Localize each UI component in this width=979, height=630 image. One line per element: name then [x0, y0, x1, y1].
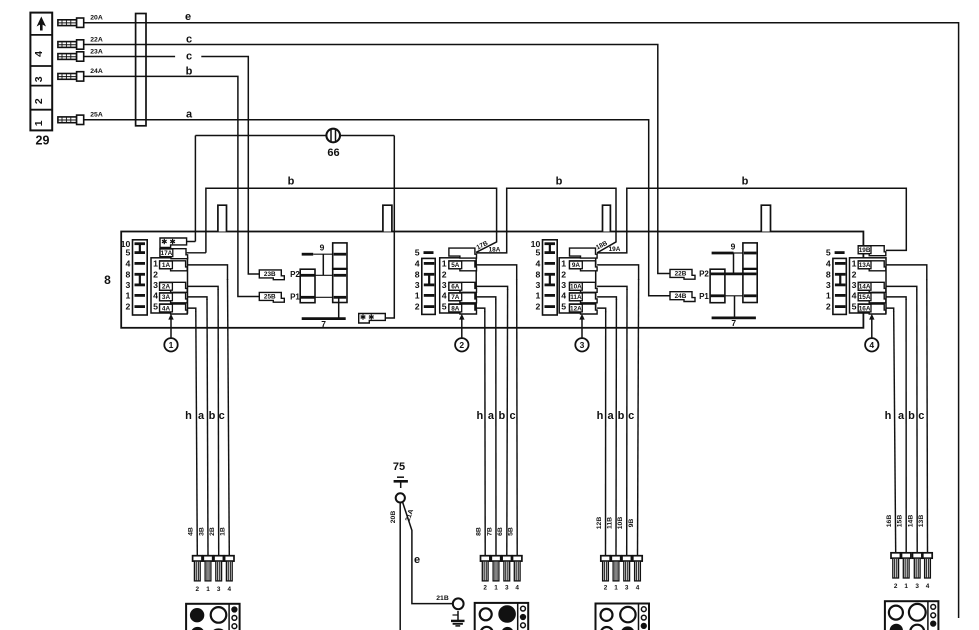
svg-text:5: 5 [125, 248, 130, 258]
svg-text:4: 4 [515, 585, 519, 592]
svg-text:2: 2 [826, 302, 831, 312]
svg-text:1: 1 [153, 259, 158, 269]
wire 4B [196, 311, 198, 556]
svg-text:1: 1 [535, 291, 540, 301]
svg-text:15A: 15A [859, 294, 871, 301]
svg-text:2: 2 [196, 586, 200, 593]
svg-text:a: a [488, 410, 495, 422]
svg-text:3: 3 [826, 280, 831, 290]
connector 1 pin column [121, 239, 148, 315]
connector face 3 [596, 604, 650, 630]
svg-text:7: 7 [731, 318, 736, 328]
box top tab 3 [603, 205, 611, 231]
svg-text:12A: 12A [570, 305, 582, 312]
relay 2 coil tabs [670, 269, 695, 279]
tab 4A [160, 304, 188, 314]
svg-text:2B: 2B [209, 527, 216, 536]
svg-text:4: 4 [826, 259, 831, 269]
svg-text:b: b [209, 410, 216, 422]
wire 7B [495, 299, 497, 556]
svg-text:2: 2 [153, 270, 158, 280]
svg-text:5: 5 [535, 248, 540, 258]
arrow connector 2 [459, 314, 464, 338]
circled 4 [865, 338, 878, 351]
svg-text:5: 5 [852, 302, 857, 312]
box top tab 1 [218, 205, 227, 231]
svg-text:e: e [185, 11, 191, 23]
fuse terminal 20A [58, 15, 103, 28]
svg-text:b: b [499, 410, 506, 422]
svg-text:7B: 7B [486, 527, 493, 536]
svg-text:2: 2 [125, 302, 130, 312]
box top tab 2 [383, 205, 392, 231]
wire 2B [217, 289, 220, 556]
connector 29 block [30, 13, 52, 131]
wire b (24A) [84, 76, 260, 296]
svg-text:4: 4 [561, 291, 566, 301]
svg-text:20B: 20B [390, 511, 397, 524]
star link 2 [359, 314, 386, 324]
svg-text:1: 1 [561, 259, 566, 269]
svg-text:5B: 5B [508, 527, 515, 536]
svg-text:23A: 23A [90, 48, 103, 55]
svg-text:9: 9 [731, 242, 736, 252]
svg-text:1: 1 [442, 259, 447, 269]
svg-text:4: 4 [153, 291, 158, 301]
connector face 4 [885, 601, 939, 630]
svg-text:4: 4 [415, 259, 420, 269]
svg-text:b: b [618, 410, 625, 422]
tab 7A [449, 293, 477, 303]
relay 1 coil tabs [259, 270, 284, 280]
arrow connector 4 [869, 314, 874, 338]
svg-text:5A: 5A [451, 262, 460, 269]
svg-text:3: 3 [415, 280, 420, 290]
wire 13B [926, 279, 929, 553]
main box 8 outline [121, 232, 863, 328]
tab 12A [570, 304, 598, 314]
connector face 2 [475, 603, 529, 630]
svg-text:11A: 11A [570, 294, 582, 301]
svg-text:3: 3 [625, 585, 629, 592]
wire 12B [605, 311, 607, 556]
connector 4 frame [850, 258, 887, 313]
svg-text:3: 3 [125, 280, 130, 290]
wire 9B [638, 279, 639, 556]
connector 2 pin column [415, 248, 435, 315]
svg-text:b: b [186, 66, 193, 78]
svg-text:29: 29 [36, 134, 50, 148]
svg-text:4: 4 [442, 291, 447, 301]
wires 13A-16A [886, 265, 927, 280]
svg-text:1A: 1A [162, 262, 171, 269]
wire 6B [506, 289, 509, 556]
svg-text:c: c [219, 410, 225, 422]
svg-text:1: 1 [206, 586, 210, 593]
svg-text:P2: P2 [699, 270, 709, 279]
svg-text:a: a [198, 410, 205, 422]
svg-text:5: 5 [442, 302, 447, 312]
terminal circle 21B [453, 598, 464, 609]
svg-text:24B: 24B [675, 293, 687, 300]
connector face 1 [186, 604, 240, 630]
svg-text:2: 2 [561, 270, 566, 280]
wire to lamp 66 (right) [384, 136, 395, 319]
wire 21A / e [403, 502, 453, 604]
svg-text:5: 5 [153, 302, 158, 312]
wire 10B [626, 289, 628, 556]
svg-text:3: 3 [852, 280, 857, 290]
tab 2A [160, 282, 188, 292]
svg-text:4: 4 [33, 51, 45, 57]
wire lamp 66 horizontal [195, 135, 394, 137]
svg-text:4: 4 [636, 585, 640, 592]
svg-text:9: 9 [320, 243, 325, 253]
svg-text:2: 2 [604, 585, 608, 592]
svg-text:1: 1 [169, 340, 174, 350]
svg-text:6B: 6B [497, 527, 504, 536]
svg-text:c: c [186, 51, 192, 63]
wire 15B [905, 299, 907, 553]
svg-text:17A: 17A [161, 250, 173, 257]
tab 8A [449, 304, 477, 314]
tab 18B/19A top [570, 248, 598, 258]
svg-text:25B: 25B [264, 294, 276, 301]
svg-text:b: b [908, 410, 915, 422]
tab 9A [570, 261, 598, 271]
arrow connector 1 [168, 314, 173, 338]
svg-text:b: b [288, 176, 295, 188]
wire b bus 1 (17A-17B) [206, 188, 497, 253]
svg-text:3: 3 [580, 340, 585, 350]
svg-text:4: 4 [852, 291, 857, 301]
wire b bus 2 (18A-18B) [477, 188, 617, 253]
wire 17A to b-bus [187, 252, 206, 254]
svg-text:1: 1 [415, 291, 420, 301]
svg-text:16B: 16B [886, 515, 893, 528]
svg-text:2: 2 [852, 270, 857, 280]
svg-text:19A: 19A [609, 246, 621, 253]
svg-text:8: 8 [535, 269, 540, 279]
wire 11B [615, 299, 617, 556]
svg-text:14B: 14B [908, 515, 915, 528]
wire to lamp 66 (left) [194, 136, 196, 242]
svg-text:4: 4 [535, 259, 540, 269]
svg-text:4B: 4B [188, 527, 195, 536]
svg-text:P2: P2 [290, 270, 300, 279]
fuse terminal 25A [58, 112, 103, 125]
wires 9A-12A [597, 265, 639, 280]
connector 4 pin column [826, 248, 846, 315]
svg-text:3B: 3B [198, 527, 205, 536]
tab 6A [449, 282, 477, 292]
svg-text:2A: 2A [162, 284, 171, 291]
svg-text:3A: 3A [162, 294, 171, 301]
wire 1B [228, 279, 230, 556]
svg-text:18A: 18A [489, 247, 501, 254]
svg-text:a: a [898, 410, 905, 422]
svg-text:4: 4 [869, 340, 874, 350]
svg-text:4: 4 [228, 586, 232, 593]
svg-text:2: 2 [415, 302, 420, 312]
tab 13A [858, 261, 886, 271]
svg-text:h: h [185, 410, 192, 422]
svg-text:1: 1 [904, 583, 908, 590]
svg-text:13A: 13A [859, 262, 871, 269]
tab 15A [858, 293, 886, 303]
svg-text:75: 75 [393, 461, 405, 473]
fuse terminal 23A [58, 48, 103, 61]
wire 20B [399, 502, 401, 630]
tab 14A [858, 282, 886, 292]
wire 8B [484, 311, 486, 556]
svg-text:4A: 4A [162, 305, 171, 312]
wire c (23A) [84, 56, 175, 58]
svg-text:2: 2 [442, 270, 447, 280]
svg-text:1: 1 [852, 259, 857, 269]
svg-text:8A: 8A [451, 305, 460, 312]
wire 3B [207, 299, 208, 556]
svg-text:1: 1 [125, 291, 130, 301]
svg-text:2: 2 [33, 98, 45, 104]
connector 1 frame [151, 258, 188, 313]
wire b bus 3 (19A-19B) [597, 188, 906, 253]
svg-text:19B: 19B [859, 247, 871, 254]
svg-text:b: b [742, 176, 749, 188]
svg-text:1: 1 [614, 585, 618, 592]
tab 3A [160, 293, 188, 303]
svg-text:14A: 14A [859, 284, 871, 291]
tab 10A [570, 282, 598, 292]
svg-text:16A: 16A [859, 305, 871, 312]
wires 1A-4A [187, 265, 227, 280]
svg-text:1: 1 [33, 120, 45, 126]
box top tab 4 [761, 205, 770, 231]
relay 2 [710, 242, 757, 329]
svg-text:13B: 13B [918, 515, 925, 528]
svg-text:b: b [556, 176, 563, 188]
circled 3 [575, 338, 588, 351]
svg-text:3: 3 [505, 585, 509, 592]
tab 17A [160, 249, 188, 259]
svg-text:a: a [186, 108, 193, 120]
svg-text:a: a [607, 410, 614, 422]
connector 2 frame [440, 258, 477, 313]
tab 17B/18A top [449, 248, 477, 258]
svg-text:11B: 11B [606, 517, 613, 529]
connector 3 frame [559, 258, 596, 313]
svg-text:h: h [885, 410, 892, 422]
fuse terminal 22A [58, 36, 103, 49]
wire a (25A) [84, 120, 670, 296]
wire 5B [516, 279, 519, 556]
svg-text:9A: 9A [572, 262, 581, 269]
svg-text:1: 1 [826, 291, 831, 301]
circled 2 [455, 338, 468, 351]
svg-text:c: c [186, 33, 192, 45]
svg-text:25A: 25A [90, 112, 103, 119]
svg-text:8: 8 [826, 269, 831, 279]
relay 1 [300, 243, 347, 329]
svg-text:2: 2 [459, 340, 464, 350]
svg-text:5: 5 [561, 302, 566, 312]
lamp 66 [326, 129, 340, 143]
ground symbol [451, 611, 465, 626]
svg-text:2: 2 [483, 585, 487, 592]
svg-text:P1: P1 [699, 292, 709, 301]
svg-text:e: e [414, 554, 420, 566]
svg-text:1B: 1B [220, 527, 227, 536]
harness bus bar [136, 14, 146, 126]
svg-text:P1: P1 [290, 293, 300, 302]
svg-text:5: 5 [826, 248, 831, 258]
tab 16A [858, 304, 886, 314]
svg-text:66: 66 [327, 147, 339, 159]
svg-text:23B: 23B [264, 271, 276, 278]
svg-text:2: 2 [535, 302, 540, 312]
svg-text:3: 3 [915, 583, 919, 590]
svg-text:22B: 22B [675, 271, 687, 278]
svg-text:2: 2 [894, 583, 898, 590]
svg-text:10B: 10B [617, 517, 624, 530]
svg-text:5: 5 [415, 248, 420, 258]
arrow connector 3 [579, 314, 584, 338]
wire c (22A) [84, 45, 670, 274]
svg-text:c: c [628, 410, 634, 422]
wire 14B [916, 289, 918, 553]
svg-text:15B: 15B [897, 515, 904, 528]
svg-text:3: 3 [561, 280, 566, 290]
circled 1 [164, 338, 177, 351]
svg-text:24A: 24A [90, 68, 103, 75]
svg-text:4: 4 [125, 259, 130, 269]
svg-text:3: 3 [217, 586, 221, 593]
svg-text:8: 8 [125, 269, 130, 279]
svg-text:8: 8 [415, 269, 420, 279]
svg-text:3: 3 [442, 280, 447, 290]
tab 1A [160, 261, 188, 271]
svg-text:9B: 9B [628, 519, 635, 528]
svg-text:3: 3 [33, 76, 45, 82]
svg-text:c: c [918, 410, 924, 422]
svg-text:8B: 8B [476, 527, 483, 536]
svg-text:8: 8 [104, 273, 111, 287]
svg-text:10A: 10A [570, 284, 582, 291]
switch 75 [393, 461, 408, 503]
wire 16B [894, 311, 896, 553]
tab 19B top [858, 246, 886, 256]
svg-text:7: 7 [321, 319, 326, 329]
svg-text:20A: 20A [90, 15, 103, 22]
svg-text:21B: 21B [436, 595, 449, 602]
svg-text:3: 3 [153, 280, 158, 290]
tab 5A [449, 261, 477, 271]
fuse terminal 24A [58, 68, 103, 81]
wires 5A-8A [477, 265, 517, 280]
svg-text:c: c [509, 410, 515, 422]
svg-text:6A: 6A [451, 284, 460, 291]
svg-text:h: h [597, 410, 604, 422]
tab 11A [570, 293, 598, 303]
svg-text:4: 4 [926, 583, 930, 590]
svg-text:12B: 12B [596, 517, 603, 530]
svg-text:7A: 7A [451, 294, 460, 301]
svg-text:1: 1 [494, 585, 498, 592]
connector 3 pin column [531, 239, 558, 315]
svg-text:3: 3 [535, 280, 540, 290]
svg-text:22A: 22A [90, 36, 103, 43]
svg-text:h: h [477, 410, 484, 422]
